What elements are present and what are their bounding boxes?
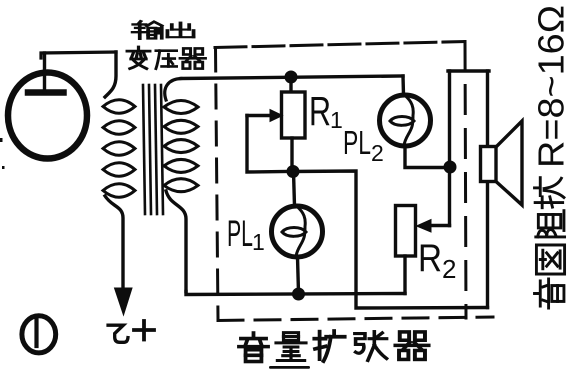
resistor R1 top lead <box>289 77 292 92</box>
svg-text:2: 2 <box>442 254 456 284</box>
lamp PL1 filament <box>282 207 306 257</box>
junction node PL2/speaker/R2 wiper <box>444 161 456 173</box>
label 乙 of B+ <box>108 325 128 342</box>
R2 wiper arrow wire <box>430 224 450 227</box>
resistor R2 bottom lead <box>403 256 406 294</box>
label 音量扩张器 (volume expander) <box>239 331 429 362</box>
svg-text:R: R <box>418 237 442 280</box>
R2 wiper arrowhead <box>417 220 432 233</box>
speaker top bar wire <box>448 69 489 72</box>
label 输出 (output) <box>133 21 194 39</box>
svg-text:PL: PL <box>343 124 371 161</box>
speaker left leg wire <box>448 71 451 226</box>
svg-text:2: 2 <box>371 140 384 166</box>
lamp PL2 top lead from node A <box>401 76 405 95</box>
lamp PL2 bulb <box>380 95 431 146</box>
lamp PL2 filament <box>390 96 414 146</box>
lamp PL1 bottom lead <box>298 257 299 293</box>
svg-text:1: 1 <box>330 107 343 133</box>
B+ label plus sign <box>134 328 154 332</box>
scan smudge under label <box>269 366 310 369</box>
label R1 <box>309 88 343 134</box>
label 变压器 (transformer) <box>127 47 205 69</box>
lamp PL2 bottom lead <box>405 146 444 168</box>
junction node top of R1 <box>285 71 297 83</box>
wire plate to transformer primary <box>41 52 116 58</box>
scan speck left edge <box>0 138 3 142</box>
speaker right leg wire <box>486 71 489 308</box>
label 音圈阻抗R=8~16Ω (voice coil impedance) <box>531 5 572 308</box>
junction node below R1 <box>287 166 299 178</box>
svg-text:R=8~16Ω: R=8~16Ω <box>531 5 572 168</box>
label R2 <box>418 237 456 284</box>
junction node PL1 bottom bus <box>293 288 305 300</box>
resistor R1 body <box>282 92 306 138</box>
R1 wiper arrow wire <box>247 116 287 173</box>
transformer core <box>143 85 163 214</box>
resistor R1 bottom lead <box>290 138 293 172</box>
R1 wiper arrowhead <box>270 110 283 122</box>
wire bottom bus secondary to R2 <box>186 292 405 295</box>
figure number 1 circle <box>22 316 56 353</box>
lamp PL1 top lead <box>294 172 295 207</box>
secondary winding <box>164 101 198 192</box>
svg-text:PL: PL <box>227 213 253 254</box>
wire junction to speaker loop (right/down path) <box>293 171 488 308</box>
svg-text:1: 1 <box>252 229 265 255</box>
speaker LS coil box <box>481 147 497 182</box>
output transformer T1 primary top lead <box>105 52 116 97</box>
primary winding <box>103 100 135 198</box>
svg-text:R: R <box>309 88 331 134</box>
secondary top lead <box>165 79 181 101</box>
label PL1 <box>227 213 265 255</box>
resistor R2 body <box>396 206 416 257</box>
primary bottom lead to B+ <box>105 196 123 291</box>
wire secondary top to PL2 (node A) <box>181 76 403 79</box>
speaker LS horn <box>496 121 522 205</box>
B+ arrowhead <box>115 288 133 315</box>
dashed enclosure (volume expander box) <box>215 42 493 321</box>
lamp PL1 bulb <box>272 206 323 257</box>
label PL2 <box>343 124 384 166</box>
vacuum tube V1 envelope <box>8 73 87 159</box>
scan speck left edge 2 <box>2 166 5 169</box>
secondary bottom lead <box>166 191 186 292</box>
tube plate lead <box>43 53 46 92</box>
tube plate <box>28 89 64 96</box>
